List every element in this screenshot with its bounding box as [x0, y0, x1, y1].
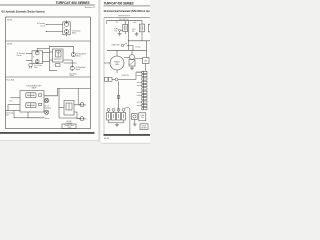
motor M4 [80, 103, 84, 107]
upper right feed wire [128, 40, 150, 42]
svg-text:Cylinders: Cylinders [45, 107, 52, 109]
svg-text:To: To [85, 118, 87, 120]
left page [0, 0, 98, 140]
wire [11, 97, 21, 99]
wire [118, 79, 136, 81]
wire riser M4 [77, 88, 79, 104]
header rule [0, 4, 95, 6]
cylinder M3a [44, 98, 48, 102]
title block [62, 124, 76, 129]
svg-text:FUSE: FUSE [140, 115, 144, 117]
svg-text:42.1 Hydraulic Schematic (Trac: 42.1 Hydraulic Schematic (Traction Optio… [1, 9, 45, 13]
faint note above frame [118, 15, 130, 17]
svg-text:To: To [85, 105, 87, 107]
wire [46, 24, 63, 26]
stubs into boxes [109, 111, 124, 112]
svg-text:Circuit: Circuit [17, 54, 22, 57]
svg-text:Motor: Motor [72, 31, 77, 34]
ground G4 [115, 125, 119, 127]
footer rule left page [0, 132, 95, 134]
ground G1 [118, 31, 122, 35]
drain filter [29, 63, 33, 68]
wire vertical mid [118, 82, 120, 111]
wire [131, 50, 133, 54]
hour meter feed box [139, 113, 146, 121]
wire [141, 21, 143, 24]
motor M1 [71, 53, 75, 57]
wire [50, 59, 53, 61]
solenoid SOL [130, 55, 135, 60]
connector blob [117, 96, 120, 99]
fuse F1 [105, 77, 109, 81]
wire [116, 50, 118, 56]
terminal strip ladder [142, 71, 144, 110]
wire [59, 107, 64, 109]
valve spool S1 [26, 93, 36, 98]
svg-text:TURFCAT 600 SERIES: TURFCAT 600 SERIES [104, 1, 135, 5]
relief valve marks [39, 94, 42, 96]
header rule right [104, 5, 151, 7]
wire [43, 100, 45, 102]
motor M5 [80, 117, 84, 121]
wire [43, 60, 50, 62]
svg-text:Circuit: Circuit [40, 24, 45, 27]
wire [7, 105, 9, 111]
connector [119, 29, 121, 31]
wire vertical join buses [128, 21, 130, 51]
pump box A [63, 22, 70, 35]
top bus wire [107, 20, 143, 22]
ground G2 [135, 32, 139, 36]
wire [112, 79, 115, 81]
cylinder M3b [44, 110, 48, 114]
schematic frame right: top border [104, 17, 150, 19]
switch bank [107, 113, 126, 121]
wire [146, 41, 148, 58]
wire bus vertical [49, 46, 51, 71]
svg-text:TURFCAT 600 SERIES: TURFCAT 600 SERIES [56, 1, 91, 5]
wire [44, 88, 91, 95]
svg-text:P: P [64, 28, 65, 30]
pump P4 [35, 60, 39, 64]
motor M2 [70, 66, 74, 70]
relay box R [132, 114, 138, 120]
svg-text:Case Drain: Case Drain [34, 65, 42, 67]
svg-text:FLOW: FLOW [67, 121, 72, 123]
svg-text:NOTE:: NOTE: [7, 43, 13, 45]
wire starter bottom stub [116, 70, 118, 73]
starter/generator [110, 56, 124, 70]
wire [8, 104, 20, 106]
relay K3 partial [148, 24, 151, 32]
svg-text:SOL: SOL [114, 31, 117, 33]
wire to ammeter [135, 58, 143, 60]
wire pump riser [37, 48, 49, 51]
divider 1 [6, 40, 91, 42]
page seam band [98, 0, 101, 142]
wire [124, 21, 126, 25]
wire bottom return [49, 70, 57, 72]
wire long return [6, 110, 21, 112]
valve spool S2 [26, 103, 36, 108]
svg-text:Section 42: Section 42 [85, 6, 96, 9]
svg-text:NOTE:: NOTE: [7, 19, 13, 21]
wire from frame to starter [104, 62, 110, 64]
wire [43, 51, 50, 53]
pump P1 [64, 20, 68, 26]
svg-text:TC-18: TC-18 [67, 127, 71, 129]
switch bank ticks [109, 114, 124, 118]
wire vertical [58, 88, 60, 118]
schematic frame [6, 17, 91, 129]
svg-text:42-18: 42-18 [104, 138, 109, 140]
wire [127, 46, 133, 51]
wire [26, 60, 32, 62]
svg-text:Valve: Valve [5, 115, 9, 117]
wire [26, 53, 32, 55]
lift valve assembly outline [20, 91, 44, 113]
wire supply [50, 46, 74, 52]
svg-text:LIGHT SW: LIGHT SW [122, 75, 130, 77]
tandem pump box [32, 51, 43, 64]
switch SW1 [121, 44, 123, 46]
bottom cluster top circles [107, 108, 125, 111]
wire [74, 112, 80, 119]
pump P2 [64, 29, 68, 36]
wire starter to solenoid [124, 57, 130, 59]
right page [101, 0, 150, 143]
ground G3 [130, 66, 134, 70]
svg-text:12V: 12V [116, 22, 119, 24]
ground G6 [133, 120, 137, 126]
wire [43, 111, 45, 113]
drain bus wire [109, 120, 124, 125]
wire below ammeter [145, 64, 147, 72]
wire to M5 [59, 117, 77, 119]
svg-text:Motor: Motor [76, 68, 81, 71]
svg-text:METER: METER [141, 128, 147, 130]
svg-text:To Eng.: To Eng. [136, 47, 142, 49]
gauge [115, 78, 118, 81]
wire return [64, 62, 77, 64]
svg-text:42.9 Electrical Schematic (S/N: 42.9 Electrical Schematic (S/N 61001 & U… [104, 10, 150, 13]
svg-text:KEY SWITCH: KEY SWITCH [119, 19, 128, 21]
flow divider block [64, 101, 74, 116]
footer rule right page [104, 134, 151, 136]
svg-text:FUEL: FUEL [114, 29, 118, 31]
svg-text:P: P [33, 57, 34, 59]
filter F1 [56, 64, 61, 67]
ammeter box [143, 58, 150, 64]
jumper arc [125, 107, 130, 109]
wire stub below K1 [124, 32, 126, 35]
wire down to rule [129, 110, 131, 135]
fuse F2 [109, 77, 113, 81]
ladder top feed [136, 72, 142, 80]
wire [46, 31, 63, 33]
svg-text:Motor: Motor [76, 55, 81, 58]
svg-text:Rear Axle: Rear Axle [7, 78, 15, 81]
wire [74, 104, 80, 106]
wire [50, 51, 53, 53]
pump P3 [35, 51, 39, 55]
ladder stub wires [137, 72, 142, 105]
valve block V1 [53, 49, 64, 62]
schematic frame right: left border [103, 18, 105, 135]
wire [28, 112, 44, 118]
bus wire 2 [107, 49, 147, 51]
divider 2 [6, 76, 91, 78]
hour meter box [140, 124, 148, 130]
wire [63, 60, 72, 66]
relay K1 [123, 24, 128, 31]
svg-text:SFTY: SFTY [132, 29, 136, 31]
wire stub below K2 [141, 32, 143, 41]
relay K2 [139, 24, 144, 32]
